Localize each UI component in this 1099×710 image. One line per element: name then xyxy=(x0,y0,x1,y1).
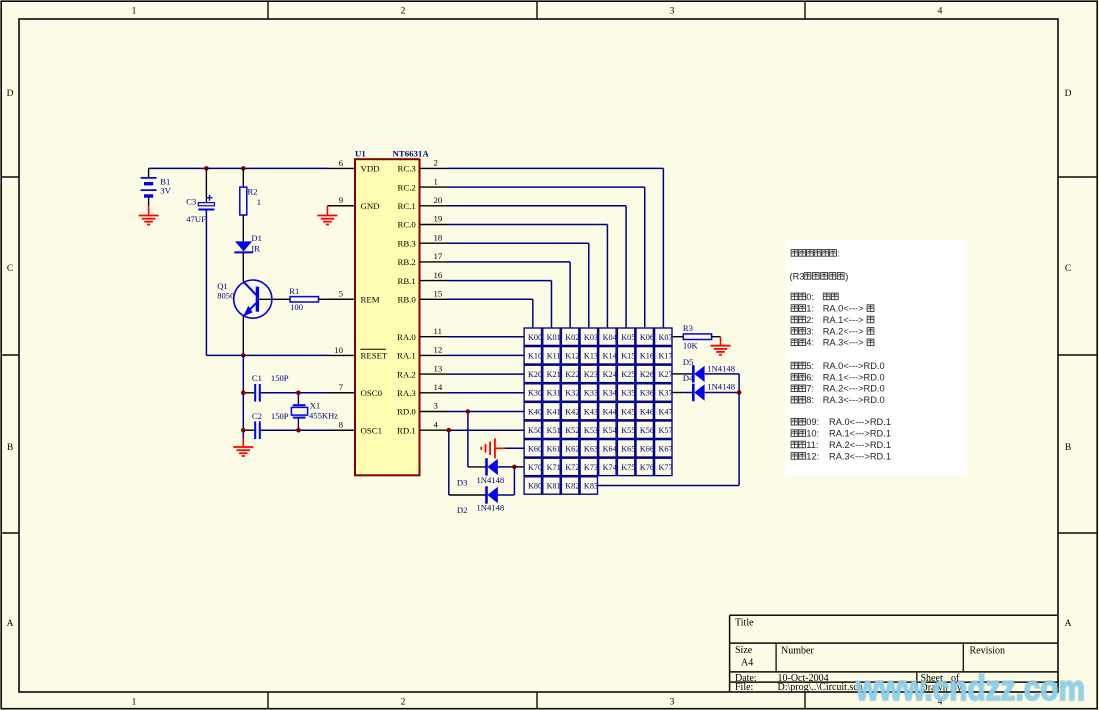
svg-text:K82: K82 xyxy=(565,482,579,491)
svg-text:K35: K35 xyxy=(621,389,635,398)
svg-text:11:: 11: xyxy=(806,440,818,450)
svg-text:K42: K42 xyxy=(565,407,579,416)
svg-text:1N4148: 1N4148 xyxy=(477,475,505,485)
svg-text:1: 1 xyxy=(132,698,137,708)
svg-text:RB.2: RB.2 xyxy=(397,257,415,267)
svg-text:K22: K22 xyxy=(565,370,579,379)
svg-text:D: D xyxy=(7,89,14,99)
svg-text:K11: K11 xyxy=(547,352,561,361)
svg-text:1: 1 xyxy=(132,7,137,17)
svg-text:K66: K66 xyxy=(640,445,654,454)
svg-text:20: 20 xyxy=(434,195,443,205)
svg-text:RA.0<--->: RA.0<---> xyxy=(823,304,864,314)
svg-text:K25: K25 xyxy=(621,370,635,379)
svg-text:D4: D4 xyxy=(683,373,694,383)
svg-text:1: 1 xyxy=(434,176,438,186)
svg-text:K81: K81 xyxy=(547,482,561,491)
svg-text:RC.1: RC.1 xyxy=(397,201,415,211)
svg-text:D3: D3 xyxy=(457,477,468,487)
svg-text:K00: K00 xyxy=(528,333,542,342)
svg-text:3: 3 xyxy=(434,401,439,411)
svg-text:A: A xyxy=(1065,619,1072,629)
svg-text:K44: K44 xyxy=(603,407,617,416)
svg-text:K73: K73 xyxy=(584,463,598,472)
svg-text:RA.3<--->RD.0: RA.3<--->RD.0 xyxy=(823,395,885,405)
svg-text:A: A xyxy=(7,619,14,629)
svg-text:RA.2: RA.2 xyxy=(397,369,416,379)
svg-text:RA.3<--->RD.1: RA.3<--->RD.1 xyxy=(829,451,891,461)
svg-text:8050: 8050 xyxy=(217,291,234,301)
svg-text:K67: K67 xyxy=(659,445,673,454)
svg-text:K43: K43 xyxy=(584,407,598,416)
svg-text:10K: 10K xyxy=(683,341,699,351)
svg-text:K83: K83 xyxy=(584,482,598,491)
svg-text:Size: Size xyxy=(735,645,753,656)
svg-text:K71: K71 xyxy=(547,463,561,472)
svg-text:K63: K63 xyxy=(584,445,598,454)
svg-text:1N4148: 1N4148 xyxy=(707,364,735,374)
svg-text:9: 9 xyxy=(339,195,344,205)
svg-text:0:: 0: xyxy=(806,292,814,302)
svg-text:RA.3: RA.3 xyxy=(397,388,416,398)
svg-text:Number: Number xyxy=(781,646,814,657)
svg-text:C1: C1 xyxy=(252,373,262,383)
svg-text:GND: GND xyxy=(361,201,380,211)
svg-text:K74: K74 xyxy=(603,463,617,472)
svg-text:100: 100 xyxy=(290,302,303,312)
svg-text:VDD: VDD xyxy=(361,164,380,174)
svg-text:1: 1 xyxy=(257,197,261,207)
svg-text:www.cndzz.com: www.cndzz.com xyxy=(855,669,1085,708)
svg-text:150P: 150P xyxy=(271,411,289,421)
svg-text:5:: 5: xyxy=(806,361,814,371)
svg-text:K75: K75 xyxy=(621,463,635,472)
svg-text:K64: K64 xyxy=(603,445,617,454)
svg-text:RA.1<--->RD.0: RA.1<--->RD.0 xyxy=(823,372,885,382)
svg-text:OSC1: OSC1 xyxy=(361,425,383,435)
svg-text:K20: K20 xyxy=(528,370,542,379)
svg-text:K04: K04 xyxy=(603,333,617,342)
svg-text:11: 11 xyxy=(434,326,442,336)
svg-text:18: 18 xyxy=(434,232,443,242)
svg-text:R2: R2 xyxy=(248,187,258,197)
svg-text:K12: K12 xyxy=(565,352,579,361)
svg-text:K57: K57 xyxy=(659,426,673,435)
svg-text:D:\prog\..\Circuit.sch: D:\prog\..\Circuit.sch xyxy=(778,682,863,693)
svg-text:RC.0: RC.0 xyxy=(397,220,416,230)
svg-text:RA.0<--->RD.1: RA.0<--->RD.1 xyxy=(829,417,891,427)
svg-text:2: 2 xyxy=(401,7,406,17)
svg-text:RB.3: RB.3 xyxy=(397,238,416,248)
svg-text:K76: K76 xyxy=(640,463,654,472)
svg-text:C: C xyxy=(7,264,13,274)
svg-text:6:: 6: xyxy=(806,372,814,382)
svg-text:K03: K03 xyxy=(584,333,598,342)
svg-text:K46: K46 xyxy=(640,407,654,416)
svg-text:7: 7 xyxy=(339,382,344,392)
svg-text:K26: K26 xyxy=(640,370,654,379)
svg-text:(R3: (R3 xyxy=(790,271,805,281)
svg-text:RA.1<--->: RA.1<---> xyxy=(823,315,864,325)
svg-text:X1: X1 xyxy=(310,401,321,411)
svg-text:K23: K23 xyxy=(584,370,598,379)
svg-text:RB.0: RB.0 xyxy=(397,295,416,305)
svg-text:150P: 150P xyxy=(271,373,289,383)
svg-text:K16: K16 xyxy=(640,352,654,361)
svg-text:K50: K50 xyxy=(528,426,542,435)
svg-text:8:: 8: xyxy=(806,395,814,405)
svg-text:K40: K40 xyxy=(528,407,542,416)
svg-text:K41: K41 xyxy=(547,407,561,416)
svg-text:10: 10 xyxy=(334,345,343,355)
svg-text:3: 3 xyxy=(670,698,675,708)
svg-text:C: C xyxy=(1065,264,1071,274)
svg-text:RA.1<--->RD.1: RA.1<--->RD.1 xyxy=(829,429,891,439)
svg-text:RA.0<--->RD.0: RA.0<--->RD.0 xyxy=(823,361,885,371)
svg-text:K53: K53 xyxy=(584,426,598,435)
svg-text:Title: Title xyxy=(735,618,754,629)
svg-text:K61: K61 xyxy=(547,445,561,454)
svg-text:14: 14 xyxy=(434,382,443,392)
svg-text:RA.1: RA.1 xyxy=(397,351,416,361)
svg-text:3V: 3V xyxy=(160,185,171,195)
svg-text:K52: K52 xyxy=(565,426,579,435)
svg-text:K07: K07 xyxy=(659,333,673,342)
svg-text:K60: K60 xyxy=(528,445,542,454)
svg-text:K55: K55 xyxy=(621,426,635,435)
svg-text:K72: K72 xyxy=(565,463,579,472)
svg-text:R1: R1 xyxy=(289,286,299,296)
svg-text:K34: K34 xyxy=(603,389,617,398)
svg-text:D2: D2 xyxy=(457,505,468,515)
svg-text:10:: 10: xyxy=(806,429,819,439)
svg-text:File:: File: xyxy=(735,682,753,693)
svg-text:17: 17 xyxy=(434,251,443,261)
svg-text:15: 15 xyxy=(434,289,443,299)
svg-text:RA.0: RA.0 xyxy=(397,332,416,342)
svg-text:455KHz: 455KHz xyxy=(309,410,338,420)
svg-text:13: 13 xyxy=(434,363,443,373)
svg-text:RC.2: RC.2 xyxy=(397,182,415,192)
svg-text:K21: K21 xyxy=(547,370,561,379)
svg-text:K51: K51 xyxy=(547,426,561,435)
svg-text:Revision: Revision xyxy=(970,646,1006,657)
svg-text:47UF: 47UF xyxy=(186,214,206,224)
svg-text:RA.2<--->RD.1: RA.2<--->RD.1 xyxy=(829,440,891,450)
svg-text:D: D xyxy=(1065,89,1072,99)
svg-text:1N4148: 1N4148 xyxy=(477,503,505,513)
svg-text:K06: K06 xyxy=(640,333,654,342)
svg-text:D1: D1 xyxy=(251,233,262,243)
svg-text:C2: C2 xyxy=(252,411,262,421)
svg-text:4:: 4: xyxy=(806,338,814,348)
svg-text:12:: 12: xyxy=(806,451,819,461)
svg-text:7:: 7: xyxy=(806,384,814,394)
svg-text:5: 5 xyxy=(339,289,344,299)
svg-text:K33: K33 xyxy=(584,389,598,398)
svg-text:6: 6 xyxy=(339,158,344,168)
svg-text:K47: K47 xyxy=(659,407,673,416)
svg-text:3:: 3: xyxy=(806,326,814,336)
svg-text:1:: 1: xyxy=(806,304,814,314)
svg-text:OSC0: OSC0 xyxy=(361,388,383,398)
svg-text:8: 8 xyxy=(339,420,344,430)
svg-text:K30: K30 xyxy=(528,389,542,398)
svg-text:IR: IR xyxy=(251,244,260,254)
svg-text:K10: K10 xyxy=(528,352,542,361)
svg-text:09:: 09: xyxy=(806,417,819,427)
svg-text:U1: U1 xyxy=(355,149,366,159)
svg-text:B: B xyxy=(1065,443,1071,453)
svg-text:19: 19 xyxy=(434,214,443,224)
svg-text:K15: K15 xyxy=(621,352,635,361)
svg-text:K54: K54 xyxy=(603,426,617,435)
svg-text:K14: K14 xyxy=(603,352,617,361)
svg-text:Q1: Q1 xyxy=(217,281,228,291)
svg-text:K77: K77 xyxy=(659,463,673,472)
svg-text:REM: REM xyxy=(361,295,380,305)
svg-text:K62: K62 xyxy=(565,445,579,454)
svg-text:16: 16 xyxy=(434,270,443,280)
svg-text:NT6631A: NT6631A xyxy=(393,149,430,159)
svg-text:A4: A4 xyxy=(741,658,753,669)
svg-text:K37: K37 xyxy=(659,389,673,398)
svg-text:RA.3<--->: RA.3<---> xyxy=(823,338,864,348)
svg-text:RA.2<--->RD.0: RA.2<--->RD.0 xyxy=(823,384,885,394)
svg-text:D5: D5 xyxy=(683,357,694,367)
svg-text:2: 2 xyxy=(434,158,438,168)
svg-text:C3: C3 xyxy=(186,197,196,207)
svg-text:K45: K45 xyxy=(621,407,635,416)
svg-text:K01: K01 xyxy=(547,333,561,342)
svg-text:RA.2<--->: RA.2<---> xyxy=(823,326,864,336)
svg-text:RD.0: RD.0 xyxy=(397,407,416,417)
svg-text:K24: K24 xyxy=(603,370,617,379)
svg-text:RC.3: RC.3 xyxy=(397,164,416,174)
svg-text:K70: K70 xyxy=(528,463,542,472)
svg-text:4: 4 xyxy=(938,7,943,17)
svg-text:K05: K05 xyxy=(621,333,635,342)
svg-text:K65: K65 xyxy=(621,445,635,454)
svg-text:RESET: RESET xyxy=(361,351,389,361)
svg-text:): ) xyxy=(845,271,848,281)
svg-text:RB.1: RB.1 xyxy=(397,276,415,286)
svg-text:K56: K56 xyxy=(640,426,654,435)
svg-text:K02: K02 xyxy=(565,333,579,342)
svg-text:K17: K17 xyxy=(659,352,673,361)
svg-text:R3: R3 xyxy=(683,323,693,333)
svg-text:K27: K27 xyxy=(659,370,673,379)
svg-text:12: 12 xyxy=(434,345,443,355)
svg-text:K13: K13 xyxy=(584,352,598,361)
svg-text::: : xyxy=(838,248,841,258)
svg-text:RD.1: RD.1 xyxy=(397,425,416,435)
svg-text:3: 3 xyxy=(670,7,675,17)
svg-text:2:: 2: xyxy=(806,315,814,325)
svg-text:K36: K36 xyxy=(640,389,654,398)
svg-text:K80: K80 xyxy=(528,482,542,491)
svg-text:K32: K32 xyxy=(565,389,579,398)
svg-text:K31: K31 xyxy=(547,389,561,398)
svg-text:2: 2 xyxy=(401,698,406,708)
svg-text:4: 4 xyxy=(434,419,439,429)
svg-text:B: B xyxy=(7,443,13,453)
svg-text:1N4148: 1N4148 xyxy=(707,382,735,392)
